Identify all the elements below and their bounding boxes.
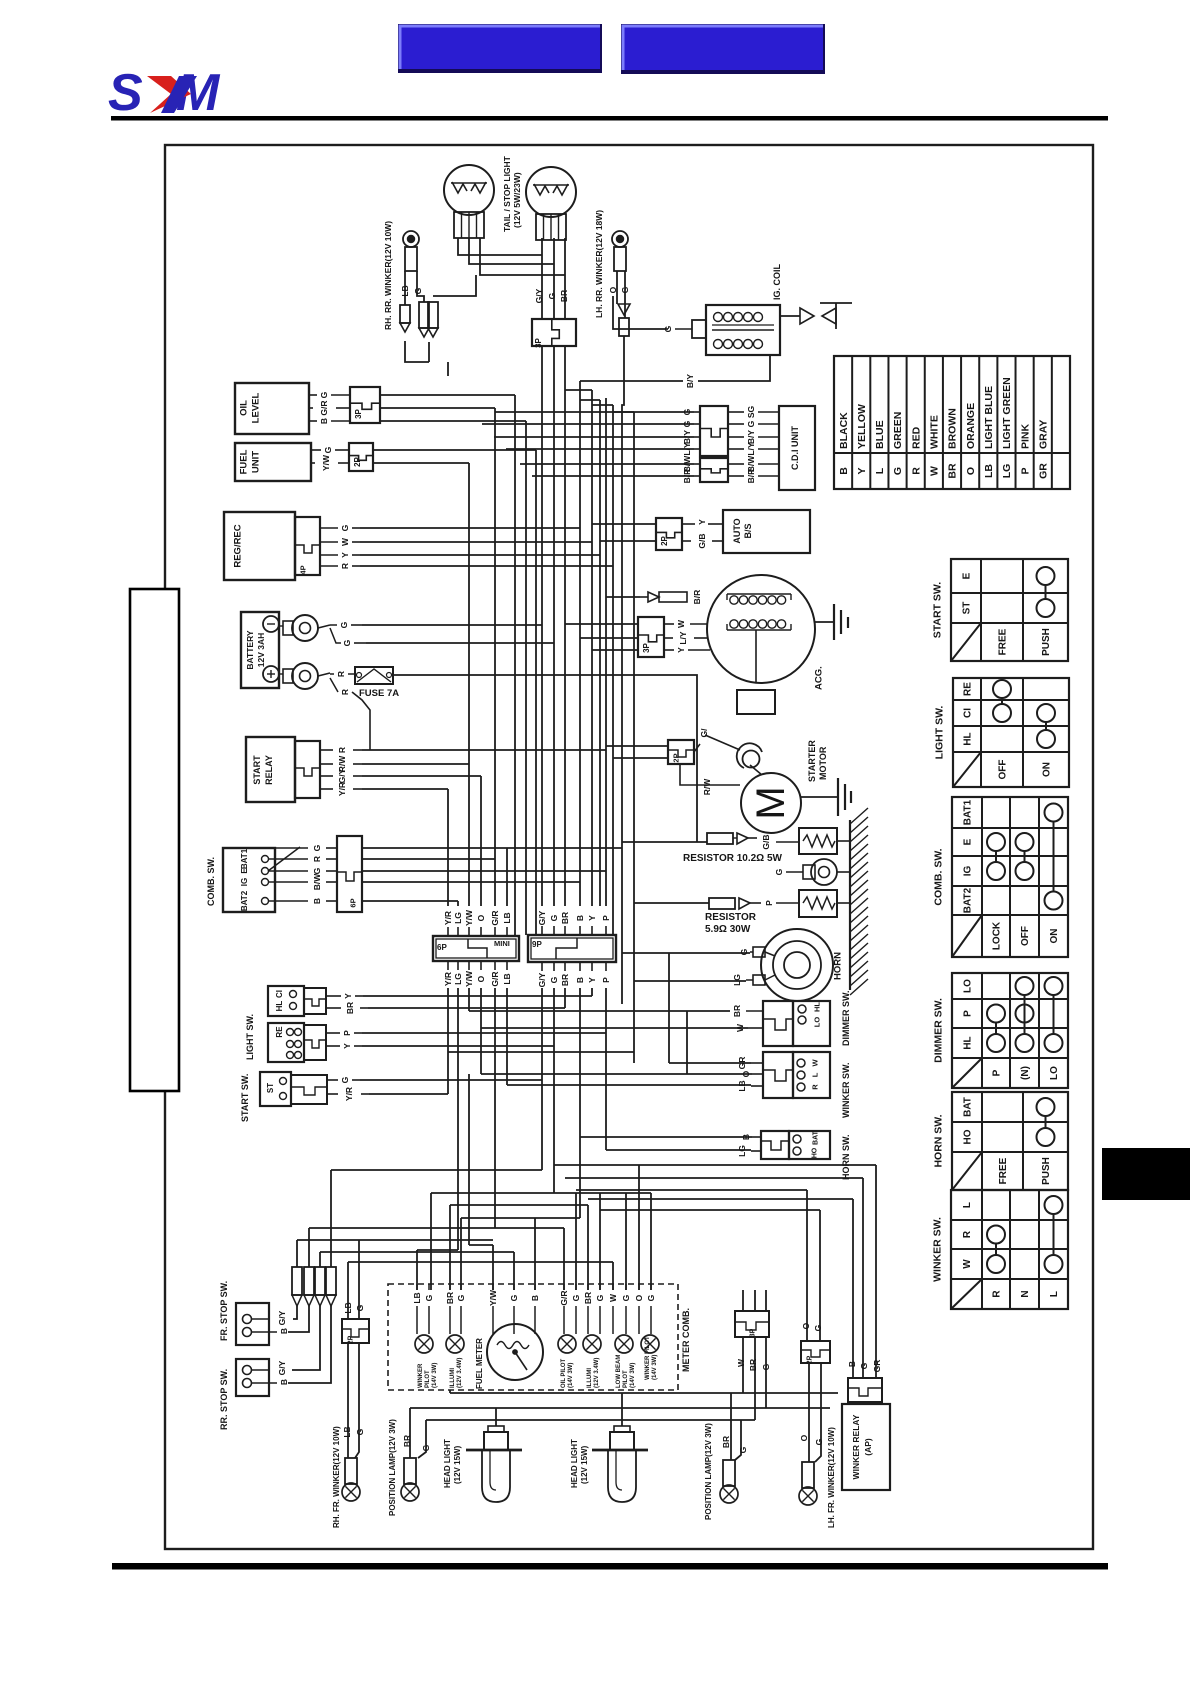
svg-text:G: G: [424, 1294, 434, 1301]
svg-text:G: G: [355, 1304, 365, 1311]
svg-text:RE: RE: [275, 1026, 284, 1038]
svg-text:G/Y: G/Y: [537, 972, 547, 987]
starter motor ground: [801, 778, 851, 816]
svg-text:POSITION LAMP(12V 3W): POSITION LAMP(12V 3W): [704, 1423, 713, 1520]
wire: [506, 988, 508, 1085]
wire: [362, 775, 481, 777]
DIMMER SW. table: [952, 973, 1068, 1088]
wire: [564, 988, 566, 1008]
svg-text:PUSH: PUSH: [1041, 628, 1052, 656]
wire: [612, 405, 614, 935]
svg-text:2P: 2P: [672, 753, 681, 762]
tail/stop light bulb left: [444, 165, 494, 238]
svg-text:HO: HO: [811, 1147, 818, 1158]
svg-text:G: G: [355, 1428, 365, 1435]
wire: [806, 1190, 808, 1341]
svg-text:LOW BEAM: LOW BEAM: [616, 1355, 622, 1388]
svg-text:12V 3AH: 12V 3AH: [256, 633, 266, 668]
starter motor M: [741, 765, 801, 833]
svg-text:G: G: [549, 976, 559, 983]
svg-text:DIMMER SW.: DIMMER SW.: [933, 998, 945, 1063]
start relay: [246, 737, 320, 802]
position lamp right bulb: [720, 1460, 738, 1503]
wire: [765, 1337, 767, 1408]
wire: [616, 271, 618, 304]
svg-text:RH. RR. WINKER(12V 10W): RH. RR. WINKER(12V 10W): [383, 221, 393, 330]
svg-text:L/Y: L/Y: [682, 442, 692, 456]
wire: [469, 1010, 730, 1012]
wire: [592, 523, 656, 525]
svg-text:HL: HL: [963, 1036, 974, 1049]
svg-text:O: O: [801, 1322, 811, 1329]
svg-text:(12V 3.4W): (12V 3.4W): [457, 1358, 463, 1388]
position lamp left bulb: [401, 1458, 419, 1501]
wire: [606, 596, 640, 598]
svg-text:L: L: [962, 1202, 973, 1208]
wire: [447, 362, 449, 376]
svg-text:BR: BR: [583, 1292, 593, 1304]
svg-text:HORN: HORN: [832, 952, 843, 980]
svg-text:(14V 3W): (14V 3W): [652, 1355, 658, 1380]
wire: [765, 1290, 767, 1311]
wire: [541, 988, 543, 1170]
svg-text:9P: 9P: [532, 940, 542, 949]
svg-text:BR: BR: [748, 1359, 758, 1371]
svg-text:(AP): (AP): [863, 1438, 873, 1456]
wire: [506, 848, 508, 906]
wire: [563, 1228, 565, 1290]
wire: [360, 554, 600, 556]
ignition coil IG COIL: [692, 305, 780, 355]
wire: [624, 271, 626, 318]
wire: [331, 1169, 542, 1171]
svg-text:G/Y: G/Y: [534, 288, 544, 303]
auto bystarter connector 2P: [656, 518, 682, 550]
svg-text:HEAD LIGHT: HEAD LIGHT: [443, 1439, 452, 1488]
wire: [468, 988, 470, 1011]
svg-text:FREE: FREE: [998, 1157, 1009, 1184]
svg-text:B/R: B/R: [692, 590, 702, 605]
wire: [532, 475, 694, 477]
wire: [606, 745, 668, 747]
wire: [373, 449, 536, 451]
wire: [564, 238, 566, 319]
3P connector bottom: [735, 1311, 769, 1337]
svg-text:E: E: [963, 838, 974, 845]
wire: [373, 462, 469, 464]
tail/stop light bulb right: [526, 167, 576, 240]
svg-text:W: W: [340, 537, 350, 546]
svg-text:(14V 3W): (14V 3W): [432, 1363, 438, 1388]
fuel unit box: [235, 443, 311, 481]
ACG connector 3P: [638, 617, 664, 657]
svg-text:LIGHT SW.: LIGHT SW.: [245, 1014, 255, 1060]
WINKER SW. table: [951, 1190, 1068, 1309]
CDI connector upper 4P: [700, 406, 728, 456]
wire: [418, 1420, 426, 1458]
svg-text:LB: LB: [412, 1292, 422, 1303]
svg-text:CI: CI: [275, 990, 284, 998]
wire: [862, 1178, 864, 1378]
wire: [362, 870, 606, 872]
wire: [309, 1227, 564, 1229]
winker pilot lamp left: [415, 1335, 433, 1353]
wire: [482, 423, 694, 425]
header rule: [111, 116, 1108, 121]
wire: [606, 1149, 751, 1151]
svg-text:LG: LG: [453, 912, 463, 924]
svg-text:Y/R: Y/R: [443, 911, 453, 925]
wire: [430, 1193, 432, 1290]
wire: [362, 858, 495, 860]
wire: [613, 757, 668, 759]
winker relay box: [842, 1404, 890, 1490]
wire: [579, 988, 581, 1218]
svg-text:WINKER SW.: WINKER SW.: [841, 1063, 851, 1119]
wire: [358, 1240, 360, 1319]
wire: [355, 1343, 359, 1458]
wire: [449, 1205, 451, 1290]
svg-text:G: G: [595, 1294, 605, 1301]
winker switch component: [763, 1052, 830, 1098]
bullet connector LH winker: [618, 304, 630, 336]
svg-text:HEAD LIGHT: HEAD LIGHT: [570, 1439, 579, 1488]
resistor element 5.9: [799, 890, 850, 917]
svg-text:B: B: [575, 977, 585, 983]
wire: [514, 395, 516, 935]
2P connector lh winker: [801, 1341, 830, 1364]
svg-text:COMB. SW.: COMB. SW.: [933, 848, 945, 905]
wire: [579, 381, 581, 906]
wire: [292, 1306, 320, 1370]
svg-text:POSITION LAMP(12V 3W): POSITION LAMP(12V 3W): [388, 1419, 397, 1516]
svg-text:ILLUMI: ILLUMI: [450, 1368, 456, 1388]
wire: [742, 1290, 744, 1311]
svg-text:E: E: [240, 868, 249, 874]
light switch block upper: [268, 986, 326, 1016]
svg-text:R: R: [811, 1084, 820, 1090]
svg-text:BAT: BAT: [812, 1130, 819, 1145]
wire: [587, 1205, 589, 1290]
svg-text:G: G: [621, 1294, 631, 1301]
svg-text:G/: G/: [699, 728, 709, 738]
svg-text:B: B: [575, 915, 585, 921]
wire: [730, 1393, 732, 1460]
wire: [362, 749, 606, 751]
svg-text:WINKER SW.: WINKER SW.: [932, 1217, 944, 1282]
svg-text:5.9Ω 30W: 5.9Ω 30W: [705, 924, 751, 935]
svg-text:GREEN: GREEN: [892, 412, 904, 449]
svg-text:Y/W: Y/W: [321, 454, 331, 471]
svg-text:(12V 15W): (12V 15W): [580, 1445, 589, 1484]
svg-text:P: P: [601, 915, 611, 921]
svg-text:LO: LO: [963, 979, 974, 993]
wire: [754, 1290, 756, 1311]
wire: [362, 1032, 606, 1034]
svg-text:G: G: [646, 1294, 656, 1301]
svg-text:(14V 3W): (14V 3W): [568, 1363, 574, 1388]
svg-text:METER COMB.: METER COMB.: [681, 1308, 691, 1372]
svg-text:G: G: [663, 325, 673, 332]
svg-text:G/B: G/B: [761, 834, 771, 849]
svg-text:BAT1: BAT1: [963, 799, 974, 825]
svg-text:O: O: [608, 286, 618, 293]
svg-text:G: G: [509, 1294, 519, 1301]
svg-text:G: G: [312, 844, 322, 851]
svg-text:R/W: R/W: [702, 778, 712, 796]
COMB. SW. table: [952, 797, 1068, 957]
wire: [668, 953, 670, 1063]
svg-text:G/R: G/R: [490, 910, 500, 925]
wire: [457, 901, 459, 906]
svg-text:ST: ST: [266, 1083, 275, 1093]
svg-text:IG: IG: [240, 878, 249, 886]
wire: [634, 902, 709, 904]
svg-text:Y/W: Y/W: [464, 970, 474, 987]
svg-text:G: G: [456, 1294, 466, 1301]
svg-text:GR: GR: [1037, 463, 1049, 479]
svg-text:P: P: [1019, 467, 1031, 474]
wire: [404, 271, 406, 305]
svg-text:LH. RR. WINKER(12V 18W): LH. RR. WINKER(12V 18W): [594, 210, 604, 318]
svg-text:G: G: [340, 524, 350, 531]
wire: [669, 1062, 751, 1064]
svg-text:P: P: [601, 977, 611, 983]
wire: [534, 1218, 536, 1290]
svg-text:BR: BR: [732, 1005, 742, 1017]
wire: [564, 346, 566, 906]
wire: [565, 389, 592, 391]
wire: [362, 1045, 554, 1047]
svg-text:P: P: [342, 1030, 352, 1036]
wire: [458, 238, 542, 255]
svg-text:L: L: [874, 467, 886, 474]
auto bystarter box AUTO B/S: [723, 510, 810, 553]
wire: [288, 1306, 309, 1332]
svg-text:(N): (N): [1020, 1066, 1031, 1080]
wire: [541, 238, 543, 319]
wire: [330, 1170, 332, 1267]
svg-text:UNIT: UNIT: [250, 451, 261, 473]
svg-text:Y: Y: [342, 1043, 352, 1049]
svg-text:B: B: [530, 1295, 540, 1301]
svg-text:O: O: [476, 975, 486, 982]
wire: [506, 448, 694, 450]
wire: [461, 1217, 580, 1219]
svg-text:LEVEL: LEVEL: [250, 393, 261, 424]
wire: [576, 1189, 807, 1191]
wire: [347, 1262, 349, 1319]
svg-text:WINKER RELAY: WINKER RELAY: [851, 1414, 861, 1479]
regulator rectifier REG/REC: [224, 512, 320, 580]
meter combination dashed box: [388, 1284, 678, 1390]
wire: [588, 1198, 853, 1200]
svg-text:L: L: [811, 1072, 820, 1077]
svg-text:G: G: [342, 639, 352, 646]
wire: [819, 1210, 821, 1341]
horn: [753, 929, 833, 1001]
svg-text:(12V 5W/23W): (12V 5W/23W): [512, 172, 522, 228]
svg-text:G: G: [813, 1324, 823, 1331]
wire: [605, 398, 607, 906]
svg-text:BR: BR: [560, 974, 570, 986]
head light left: [466, 1426, 522, 1502]
svg-text:PINK: PINK: [1019, 423, 1031, 449]
wire color code table: [834, 356, 1070, 489]
svg-text:Y: Y: [343, 993, 353, 999]
svg-text:Y: Y: [587, 977, 597, 983]
svg-text:W: W: [608, 1293, 618, 1302]
white callout box left margin: [130, 589, 179, 1091]
svg-text:PILOT: PILOT: [425, 1370, 431, 1388]
svg-text:HL: HL: [963, 732, 974, 745]
wire: [591, 390, 593, 906]
svg-text:3P: 3P: [534, 337, 543, 347]
wire: [368, 1007, 565, 1009]
svg-text:R: R: [337, 747, 347, 753]
wire: [288, 1306, 331, 1383]
svg-text:L/Y: L/Y: [678, 631, 688, 645]
dimmer switch component: [763, 1001, 830, 1046]
svg-text:G: G: [774, 868, 784, 875]
svg-text:4P: 4P: [299, 565, 308, 574]
svg-text:LB: LB: [983, 464, 995, 478]
svg-text:B/Y: B/Y: [682, 430, 692, 445]
svg-text:RESISTOR 10.2Ω 5W: RESISTOR 10.2Ω 5W: [683, 853, 783, 864]
svg-text:G/R: G/R: [319, 400, 329, 415]
svg-text:BAT: BAT: [963, 1097, 974, 1117]
resistor element 10.2: [799, 828, 850, 854]
svg-text:P: P: [992, 1069, 1003, 1076]
svg-text:2P: 2P: [806, 1355, 813, 1364]
wire: [580, 399, 600, 401]
wire: [468, 1074, 470, 1245]
svg-text:START: START: [252, 755, 262, 785]
front winker connector 2P: [342, 1319, 369, 1344]
spark plug gap: [780, 303, 852, 329]
svg-text:LIGHT GREEN: LIGHT GREEN: [1001, 377, 1013, 449]
svg-text:G: G: [859, 1362, 869, 1369]
svg-text:LB: LB: [502, 912, 512, 923]
svg-text:BAT2: BAT2: [240, 890, 249, 911]
wire: [362, 788, 448, 790]
svg-text:PUSH: PUSH: [1041, 1157, 1052, 1185]
svg-text:G: G: [738, 1446, 748, 1453]
blue nav button 2: [621, 24, 825, 74]
svg-text:LO: LO: [813, 1017, 822, 1028]
svg-text:AUTO: AUTO: [732, 518, 742, 543]
footer rule: [112, 1563, 1108, 1570]
svg-text:R: R: [340, 563, 350, 569]
svg-text:Y/R: Y/R: [344, 1087, 354, 1101]
RH rear winker bulb: [403, 231, 419, 271]
svg-text:B: B: [838, 467, 850, 475]
svg-text:B: B: [279, 1379, 289, 1385]
comb sw connector 6P: [337, 836, 362, 912]
svg-text:ON: ON: [1049, 929, 1060, 944]
svg-text:OFF: OFF: [1020, 926, 1031, 946]
svg-text:W: W: [735, 1023, 745, 1032]
svg-text:ST: ST: [962, 602, 973, 615]
wire: [410, 1407, 830, 1409]
wire: [450, 1204, 588, 1206]
svg-text:E: E: [962, 572, 973, 579]
svg-text:G: G: [761, 1363, 771, 1370]
svg-text:R: R: [340, 689, 350, 695]
wire: [428, 342, 430, 362]
svg-text:3P: 3P: [642, 642, 651, 652]
wire: [553, 346, 555, 906]
svg-text:WHITE: WHITE: [929, 415, 941, 449]
oil pilot lamp: [558, 1335, 576, 1353]
svg-text:B: B: [312, 898, 322, 904]
svg-text:HORN SW.: HORN SW.: [933, 1114, 945, 1167]
RH front winker bulb: [342, 1458, 360, 1501]
wire: [599, 1193, 601, 1290]
svg-text:BR: BR: [947, 463, 959, 479]
wire: [553, 238, 555, 319]
wire: [362, 763, 469, 765]
svg-text:SG: SG: [746, 405, 756, 418]
low beam pilot lamp: [615, 1335, 633, 1353]
wire: [320, 1251, 514, 1253]
svg-text:G: G: [413, 287, 423, 294]
svg-text:BR: BR: [721, 1436, 731, 1448]
wire: [480, 238, 565, 275]
wire: [565, 1177, 863, 1179]
svg-text:C.D.I UNIT: C.D.I UNIT: [790, 425, 800, 470]
svg-text:B/W: B/W: [312, 873, 322, 891]
svg-text:O: O: [965, 467, 977, 475]
wire: [686, 1011, 688, 1074]
svg-text:BLACK: BLACK: [838, 412, 850, 449]
wire: [468, 463, 470, 906]
wire: [297, 1239, 493, 1241]
svg-text:W: W: [676, 619, 686, 628]
svg-text:3P: 3P: [354, 408, 363, 418]
svg-text:B/Y: B/Y: [746, 430, 756, 445]
wire: [469, 238, 554, 264]
rear stop switch: [236, 1359, 269, 1396]
svg-text:P: P: [963, 1010, 974, 1017]
wire: [613, 411, 634, 413]
wire: [492, 1245, 494, 1290]
wire: [520, 463, 694, 465]
svg-text:B/R: B/R: [682, 469, 692, 484]
combination switch terminal block: [223, 847, 300, 912]
wire: [875, 1165, 877, 1378]
svg-text:WINKER: WINKER: [418, 1363, 424, 1388]
svg-text:HO: HO: [963, 1129, 974, 1144]
svg-text:G/R: G/R: [490, 971, 500, 986]
svg-text:LB: LB: [342, 1426, 352, 1437]
wire: [409, 1408, 411, 1458]
svg-text:RH. FR. WINKER(12V 10W): RH. FR. WINKER(12V 10W): [332, 1426, 341, 1528]
wire: [554, 1164, 876, 1166]
svg-text:G/Y: G/Y: [537, 910, 547, 925]
svg-text:GRAY: GRAY: [1037, 420, 1049, 449]
svg-text:RR. STOP SW.: RR. STOP SW.: [219, 1369, 229, 1430]
wire: [605, 988, 607, 1150]
svg-text:2P: 2P: [347, 1335, 354, 1344]
resistor 10.2ohm 5W with arrow: [707, 833, 799, 850]
svg-text:B/Y: B/Y: [685, 374, 695, 389]
svg-text:ON: ON: [1042, 762, 1053, 777]
wire: [380, 394, 515, 396]
bullet connectors RH winker: [400, 302, 438, 337]
svg-text:B: B: [319, 418, 329, 424]
wire: [622, 841, 707, 843]
